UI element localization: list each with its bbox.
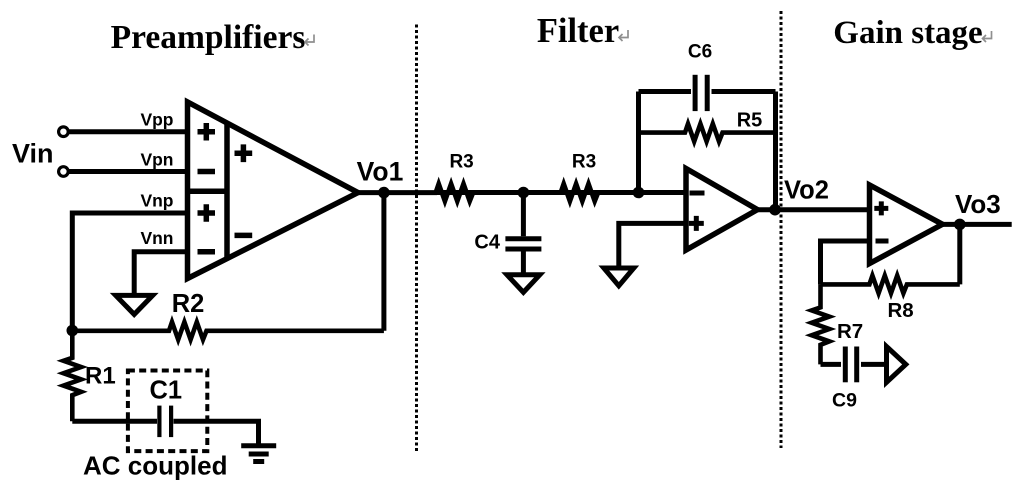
wire C6 branch <box>639 89 692 94</box>
node C junction dot <box>633 187 645 199</box>
node Vo3 junction dot <box>954 219 966 231</box>
svg-text:R3: R3 <box>449 152 473 173</box>
svg-text:R5: R5 <box>737 109 763 131</box>
dashed box AC coupled <box>128 371 207 452</box>
node Vo2 junction dot <box>769 204 781 216</box>
svg-text:R2: R2 <box>172 290 205 318</box>
section divider dotted line 2 <box>780 11 783 448</box>
wire Vpn <box>69 169 188 174</box>
wire feedback right vertical <box>773 92 778 210</box>
op-amp U2 (filter) <box>686 169 758 251</box>
svg-text:R8: R8 <box>887 299 913 322</box>
svg-text:Vnp: Vnp <box>140 191 173 211</box>
U1 pin + (Vpp) <box>198 123 216 141</box>
capacitor C4 <box>505 239 541 249</box>
section divider dotted line 1 <box>415 25 418 453</box>
wire U2 + input to ground <box>619 223 686 268</box>
wire C9 to reference <box>861 362 887 367</box>
paragraph return mark 2 <box>619 30 628 41</box>
U1 pin - (Vnn) <box>198 249 216 255</box>
paragraph return mark 3 <box>983 31 992 42</box>
wire C4 branch <box>521 193 526 237</box>
svg-text:Preamplifiers: Preamplifiers <box>111 19 306 56</box>
capacitor C6 <box>695 75 707 111</box>
wire C4 to ground <box>521 252 526 275</box>
svg-text:Vpp: Vpp <box>140 110 173 130</box>
ground symbol at Vnn <box>116 295 153 314</box>
wire feedback from Vo1 down <box>381 193 386 331</box>
resistor R3 (first) <box>436 184 474 202</box>
ground symbol at C4 <box>507 275 540 293</box>
resistor R7 <box>812 284 830 364</box>
wire U3 - input <box>821 241 870 284</box>
ground symbol at U2 + input <box>604 268 634 286</box>
resistor R3 (second) <box>561 184 599 202</box>
node Vo1 junction dot <box>378 187 390 199</box>
U1 pin + (Vnp) <box>198 204 216 222</box>
capacitor C9 <box>845 347 856 383</box>
svg-text:Gain stage: Gain stage <box>833 15 982 51</box>
wire Vnp <box>72 213 187 331</box>
input terminal Vin- <box>59 167 69 177</box>
U3 non-inverting input + <box>874 201 888 215</box>
U1 pin - (Vpn) <box>198 169 216 175</box>
resistor R8 <box>821 276 960 294</box>
svg-text:C6: C6 <box>688 42 712 63</box>
wire C6 to right vertical <box>712 89 776 94</box>
U1 output polarity - <box>235 233 253 239</box>
svg-text:C4: C4 <box>474 232 500 254</box>
svg-text:Vo2: Vo2 <box>784 177 829 205</box>
U3 inverting input - <box>876 239 889 244</box>
wire filter input row <box>437 190 686 195</box>
resistor R1 <box>64 331 82 422</box>
node A junction dot <box>67 325 79 337</box>
svg-text:Vnn: Vnn <box>140 228 173 248</box>
wire feedback vertical to output <box>957 224 962 284</box>
svg-text:AC coupled: AC coupled <box>83 451 227 481</box>
node B junction dot <box>518 187 530 199</box>
ground symbol (earth bars) at C1 <box>241 446 276 462</box>
wire Vpp <box>69 129 188 134</box>
U2 non-inverting input + <box>689 216 704 231</box>
U1 output polarity + <box>235 144 253 162</box>
svg-text:Vpn: Vpn <box>140 150 173 170</box>
resistor R2 <box>72 322 384 340</box>
wire feedback vertical up <box>636 92 641 193</box>
svg-text:Vo1: Vo1 <box>357 157 404 187</box>
U2 inverting input - <box>690 191 705 196</box>
op-amp U1 (preamplifier, fully differential) <box>188 102 359 279</box>
svg-text:Vo3: Vo3 <box>955 189 1001 219</box>
wire U1 output to filter <box>356 190 437 195</box>
op-amp U3 (gain stage) <box>870 185 943 264</box>
svg-text:C9: C9 <box>832 390 857 412</box>
svg-text:R1: R1 <box>85 363 116 390</box>
svg-text:Vin: Vin <box>12 139 54 169</box>
wire U3 output <box>940 222 1012 227</box>
capacitor C1 <box>159 406 171 438</box>
reference symbol (open triangle) at C9 <box>887 347 906 383</box>
svg-text:R3: R3 <box>572 152 596 173</box>
wire bottom AC-coupling branch <box>72 419 157 424</box>
wire R7 to C9 <box>821 362 842 367</box>
wire U2 output to gain stage <box>755 207 870 212</box>
wire Vnn <box>134 252 187 296</box>
wire R5 branch <box>639 124 776 142</box>
input terminal Vin+ <box>59 127 69 137</box>
svg-text:Filter: Filter <box>537 12 619 50</box>
paragraph return mark 1 <box>305 35 314 46</box>
svg-text:C1: C1 <box>149 377 182 405</box>
wire C1 to ground <box>174 421 259 446</box>
svg-text:R7: R7 <box>837 320 863 343</box>
